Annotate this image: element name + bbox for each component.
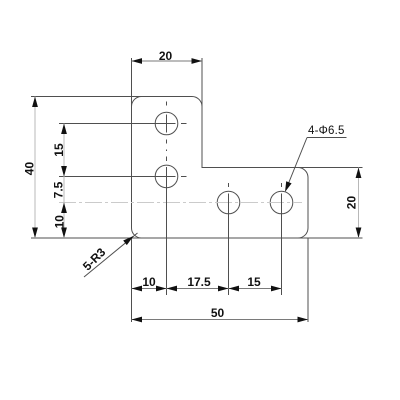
svg-text:40: 40	[23, 162, 37, 176]
svg-text:20: 20	[159, 49, 173, 63]
svg-text:10: 10	[53, 215, 67, 229]
svg-text:10: 10	[142, 275, 156, 289]
svg-text:15: 15	[52, 143, 66, 157]
svg-text:7.5: 7.5	[51, 181, 65, 198]
svg-text:20: 20	[345, 196, 359, 210]
svg-text:15: 15	[247, 275, 261, 289]
svg-text:17.5: 17.5	[187, 275, 211, 289]
svg-text:4-Φ6.5: 4-Φ6.5	[308, 125, 345, 137]
svg-text:50: 50	[211, 306, 225, 320]
